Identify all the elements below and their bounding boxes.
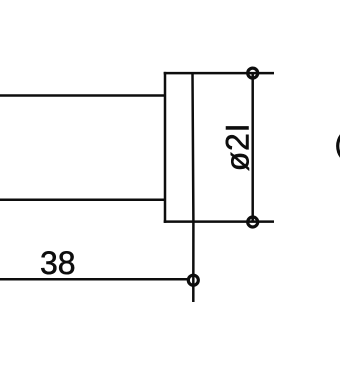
svg-text:ø2I: ø2I	[219, 123, 255, 172]
part body bottom outline line	[0, 198, 166, 201]
front view circle arc at right edge	[338, 128, 340, 164]
cap top edge with extension line	[164, 72, 274, 75]
dimension line for 38	[0, 278, 190, 281]
dimension line for diameter 21	[251, 73, 254, 222]
top circle terminator of diameter dimension	[248, 68, 258, 78]
part body top outline line	[0, 94, 166, 97]
bottom circle terminator of diameter dimension	[248, 217, 258, 227]
cap left edge line	[164, 72, 167, 223]
svg-text:38: 38	[40, 245, 76, 281]
cap bottom edge with extension line	[164, 220, 274, 223]
circle terminator of 38 dimension	[188, 275, 198, 285]
cap face line with extension to 38 dimension	[191, 73, 194, 302]
